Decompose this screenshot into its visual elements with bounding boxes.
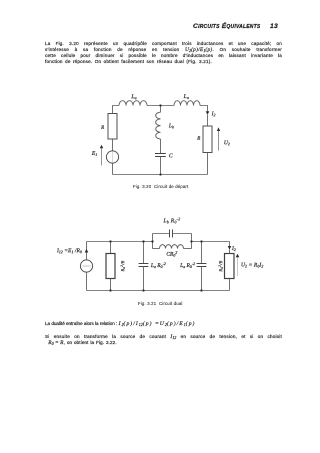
svg-text:Lb: Lb — [168, 123, 174, 129]
svg-text:U2: U2 — [224, 140, 230, 146]
svg-text:I2: I2 — [231, 246, 236, 252]
svg-text:C: C — [169, 153, 173, 159]
svg-text:Lb R0-2: Lb R0-2 — [162, 217, 180, 224]
svg-text:R02/R: R02/R — [218, 260, 224, 272]
svg-text:La: La — [130, 94, 136, 100]
svg-text:La R0-2: La R0-2 — [179, 262, 195, 269]
svg-text:La: La — [183, 94, 189, 100]
svg-text:La R0-2: La R0-2 — [150, 262, 166, 269]
svg-text:I12 =E1 /R0: I12 =E1 /R0 — [56, 248, 82, 254]
svg-text:U2 = R0I2: U2 = R0I2 — [241, 262, 263, 268]
svg-text:CR02: CR02 — [166, 251, 177, 258]
svg-text:E1: E1 — [91, 151, 97, 157]
svg-text:R02/R: R02/R — [120, 260, 126, 272]
svg-text:R: R — [100, 126, 104, 131]
svg-text:R: R — [196, 137, 200, 142]
svg-text:I2: I2 — [211, 111, 216, 117]
